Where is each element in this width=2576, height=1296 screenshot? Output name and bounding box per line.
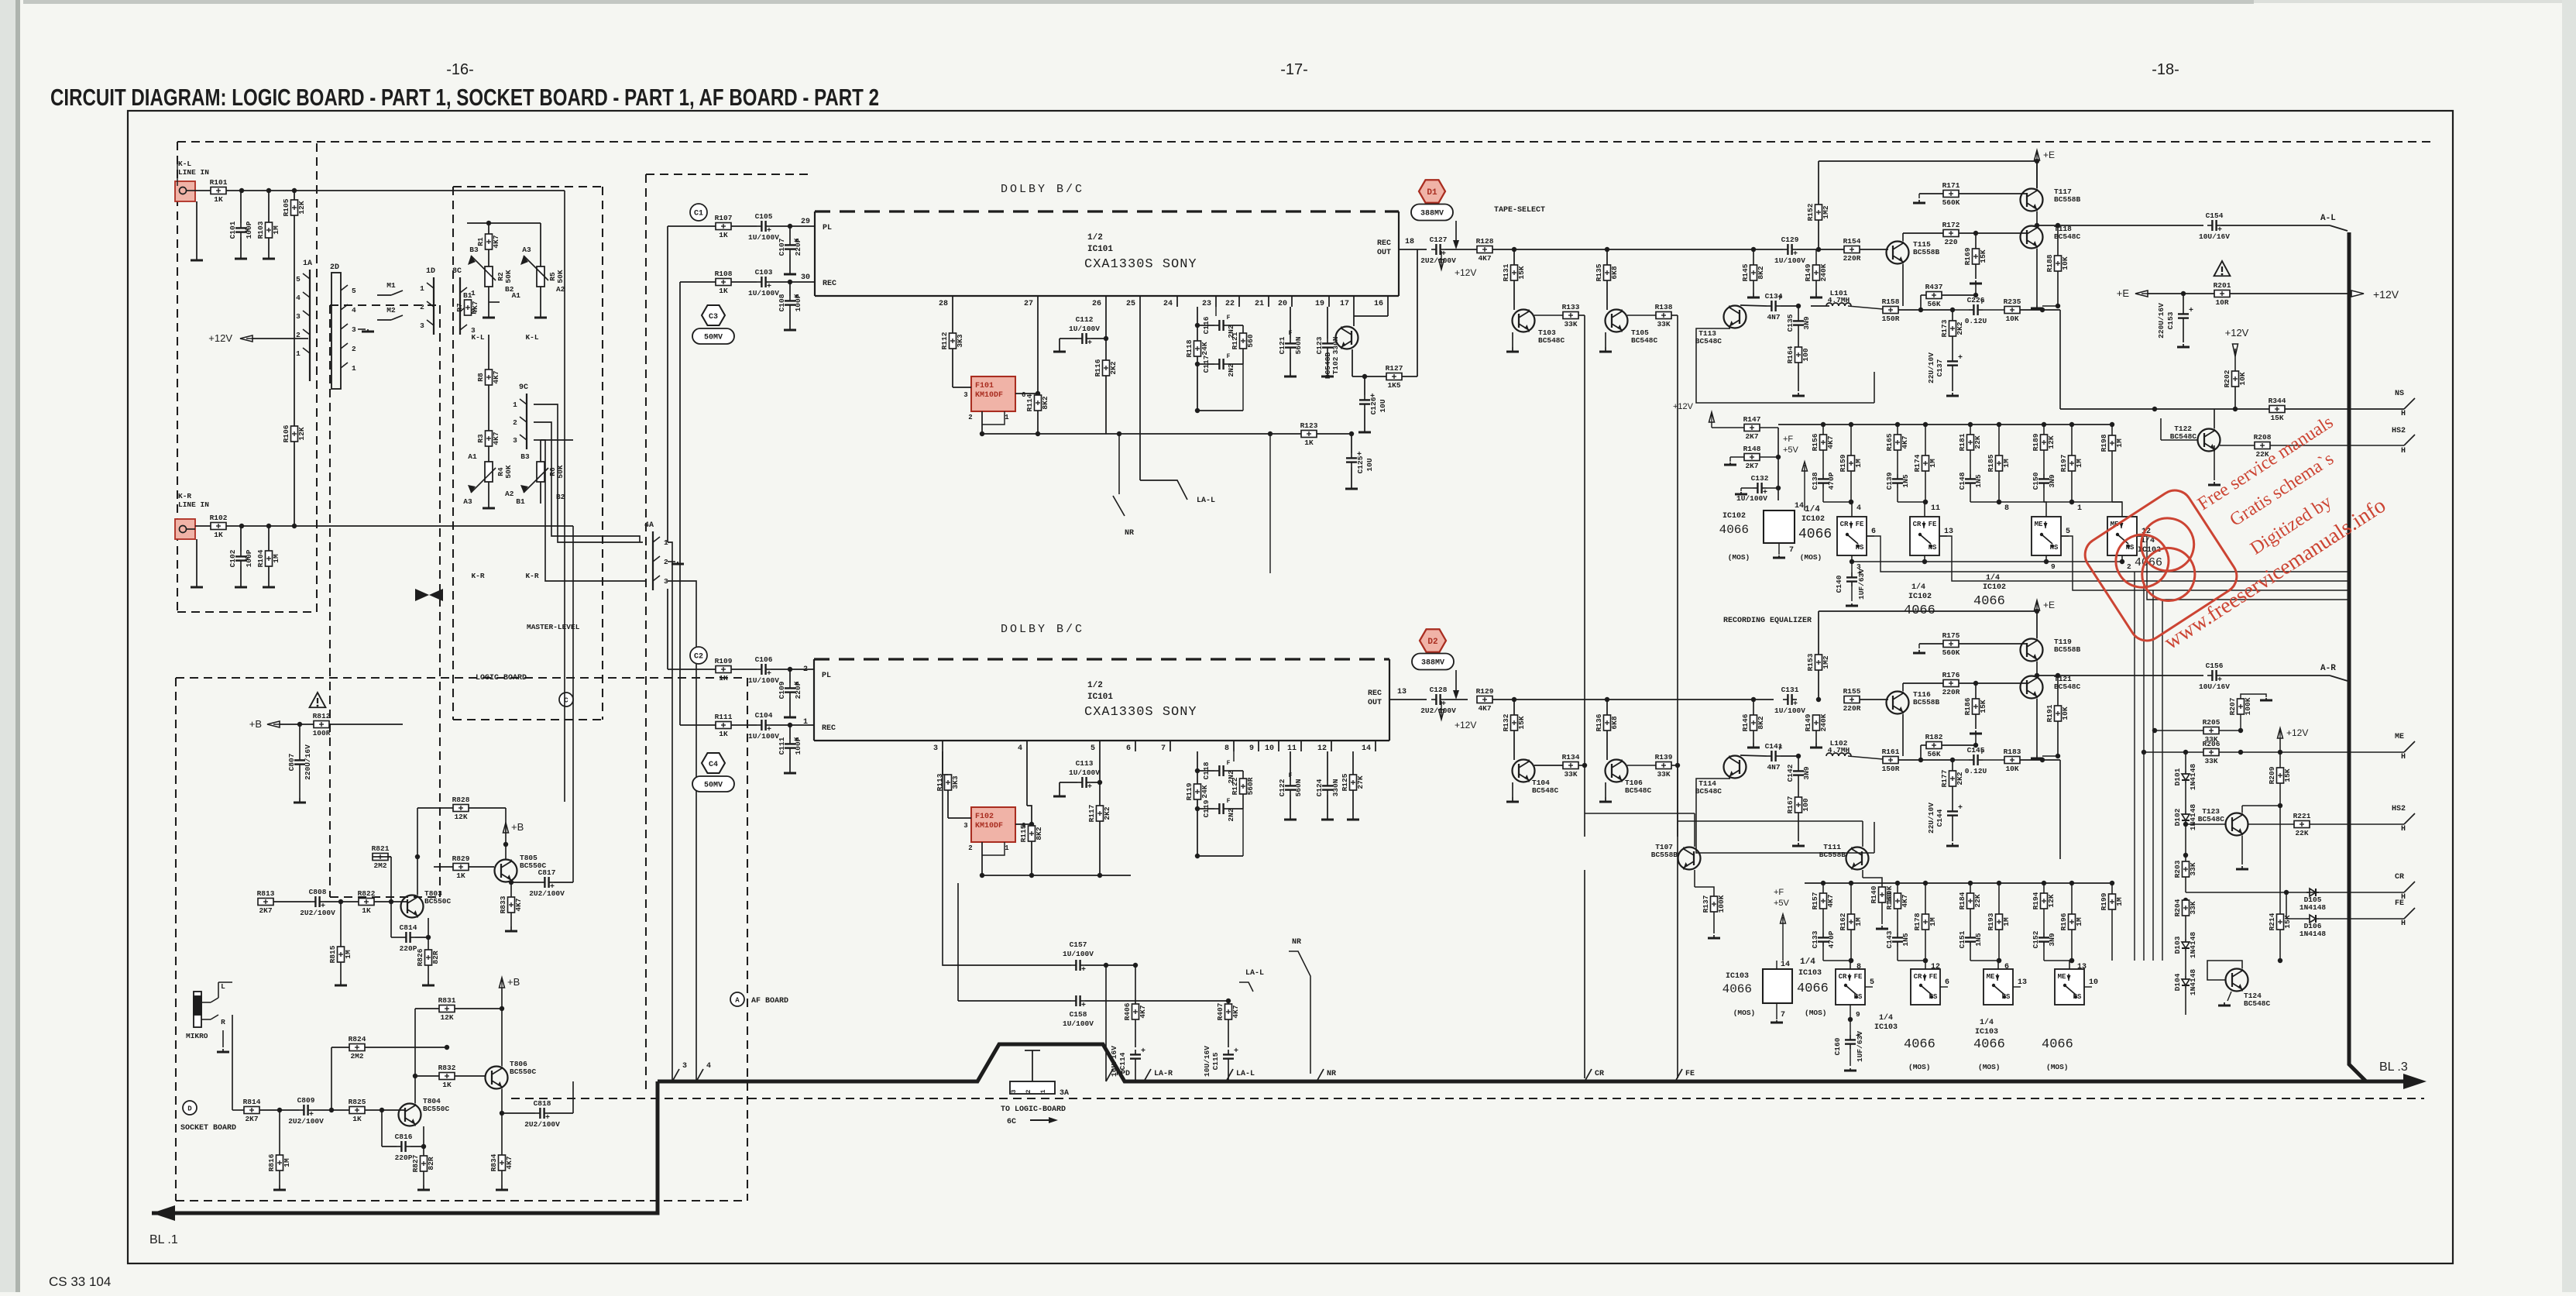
resistor R1 [486, 234, 493, 249]
svg-text:3K3: 3K3 [951, 775, 960, 789]
power +E flag lower [2035, 600, 2040, 610]
svg-text:0.12U: 0.12U [1965, 767, 1987, 775]
resistor R834 [501, 1089, 503, 1155]
svg-text:1M: 1M [1929, 459, 1937, 468]
svg-text:RECORDING EQUALIZER: RECORDING EQUALIZER [1723, 617, 1812, 625]
svg-text:15K: 15K [2283, 915, 2292, 928]
capacitor C144 [1952, 806, 1953, 811]
svg-text:C114: C114 [1118, 1052, 1127, 1070]
ground R827 [423, 1185, 424, 1190]
net RPD tick [1106, 1069, 1113, 1081]
svg-text:8K2: 8K2 [1041, 396, 1049, 409]
resistor R196 [2071, 883, 2073, 914]
svg-text:15K: 15K [1517, 266, 1526, 279]
svg-text:14: 14 [1362, 744, 1371, 753]
svg-text:BC548C: BC548C [2198, 815, 2225, 823]
svg-text:BL .3: BL .3 [2379, 1061, 2408, 1074]
svg-text:C140: C140 [1835, 575, 1843, 593]
resistor R155 [1844, 696, 1860, 703]
IC101a pin 24 [1176, 296, 1178, 307]
svg-text:H: H [2401, 920, 2406, 928]
svg-text:(MOS): (MOS) [1800, 553, 1822, 562]
svg-text:5: 5 [2066, 528, 2070, 536]
wire FE drop [1677, 765, 1678, 1078]
svg-text:1K: 1K [214, 195, 223, 204]
svg-text:1K: 1K [719, 674, 728, 682]
svg-text:R831: R831 [438, 996, 456, 1005]
svg-text:B3: B3 [469, 246, 479, 254]
wire jack K-R shield drop [196, 539, 197, 583]
svg-text:3: 3 [963, 822, 967, 830]
wire pin25 down (LA-L) [1139, 307, 1141, 480]
bowtie symbol [415, 589, 429, 601]
svg-text:1N4148: 1N4148 [2189, 932, 2197, 959]
resistor R105 [291, 200, 298, 215]
svg-text:BC550C: BC550C [424, 897, 452, 906]
svg-text:14: 14 [1795, 502, 1804, 510]
svg-text:R112: R112 [940, 332, 949, 349]
potentiometer R4 50K [485, 462, 493, 482]
resistor R175 [1943, 641, 1959, 648]
ground 2D pin3 [358, 328, 366, 330]
wire T117 [2036, 161, 2038, 188]
resistor R146 [1750, 715, 1757, 731]
capacitor C138 [1822, 450, 1824, 474]
svg-text:C817: C817 [538, 868, 556, 877]
wire socket lower amp [232, 1109, 244, 1111]
power +E flag top [2035, 150, 2040, 160]
capacitor C128 [1431, 699, 1436, 700]
connector 2D pin 2 [341, 343, 348, 349]
svg-text:R132: R132 [1502, 713, 1510, 731]
ground T124 [2236, 992, 2238, 1004]
svg-text:C139: C139 [1885, 472, 1894, 490]
transistor T124 [2226, 969, 2248, 992]
transistor T113 [1724, 306, 1747, 328]
svg-text:(MOS): (MOS) [1908, 1063, 1931, 1071]
svg-text:R169: R169 [1963, 247, 1972, 265]
resistor R199 [2111, 883, 2113, 894]
+12V flag outputs [2278, 728, 2283, 738]
capacitor C101 [240, 191, 242, 223]
resistor R822 [359, 899, 374, 906]
svg-text:R821: R821 [372, 844, 390, 853]
svg-text:220R: 220R [1843, 704, 1861, 713]
svg-text:R139: R139 [1655, 753, 1673, 761]
svg-text:R154: R154 [1843, 237, 1861, 246]
resistor R153 [1818, 670, 1819, 700]
microphone jack MIKRO [194, 992, 201, 1027]
svg-text:BC548C: BC548C [1695, 337, 1722, 345]
wire eq bundle verticals [2134, 572, 2135, 961]
eq upper top rail [1778, 424, 2112, 425]
svg-text:F: F [1779, 295, 1783, 302]
resistor R171 [1943, 191, 1959, 198]
svg-text:R123: R123 [1300, 421, 1318, 430]
svg-text:K: K [245, 556, 252, 560]
resistor R101 [211, 187, 226, 194]
capacitor C809 [299, 1109, 304, 1111]
svg-text:ME: ME [2058, 973, 2066, 981]
diode D104 [2185, 976, 2186, 979]
ground R186 [1975, 731, 1977, 734]
capacitor C113 [1077, 782, 1082, 783]
resistor R139 [1656, 762, 1671, 769]
svg-text:560K: 560K [1942, 198, 1960, 207]
+E arrow feed [2135, 290, 2148, 297]
svg-text:8: 8 [1224, 744, 1229, 753]
ground jack K-R [196, 583, 197, 587]
svg-text:R155: R155 [1843, 687, 1861, 696]
svg-text:C160: C160 [1833, 1037, 1842, 1055]
IC101a pin 19 [1328, 296, 1330, 307]
capacitor C125 [1351, 434, 1352, 453]
svg-text:CIRCUIT DIAGRAM: LOGIC BOARD -: CIRCUIT DIAGRAM: LOGIC BOARD - PART 1, S… [50, 84, 879, 111]
svg-text:A: A [735, 997, 740, 1005]
svg-text:1U/100V: 1U/100V [748, 732, 779, 741]
svg-text:R119: R119 [1185, 782, 1194, 800]
svg-text:H: H [2401, 447, 2406, 455]
svg-text:150R: 150R [1882, 315, 1900, 323]
connector 1A pin 4 [303, 292, 310, 297]
svg-text:100: 100 [1801, 348, 1810, 361]
svg-text:ME: ME [2035, 521, 2043, 528]
svg-text:2: 2 [420, 303, 424, 311]
svg-text:56K: 56K [1927, 300, 1940, 308]
capacitor C158 [1071, 1000, 1076, 1002]
ground R4 [488, 504, 489, 508]
svg-text:R204: R204 [2173, 899, 2182, 916]
wire 9C to 4A bundle [534, 404, 643, 542]
svg-text:R153: R153 [1806, 653, 1815, 671]
resistor R813 [258, 899, 273, 906]
svg-text:R202: R202 [2223, 370, 2231, 387]
svg-text:220P: 220P [400, 944, 417, 953]
wire R437 junction [1975, 284, 1977, 295]
svg-text:56K: 56K [1927, 750, 1940, 758]
analog switch IC103 ME/NS at pin 13 [2069, 961, 2072, 969]
svg-text:1M: 1M [283, 1158, 291, 1167]
svg-text:F: F [1227, 760, 1231, 767]
svg-text:2U2/100V: 2U2/100V [529, 889, 565, 898]
marker D1 388MV pill [1411, 205, 1453, 221]
transistor T104 [1513, 760, 1535, 782]
svg-text:ME: ME [1987, 973, 1995, 981]
svg-text:1N4148: 1N4148 [2300, 903, 2327, 912]
net CR label [2186, 892, 2404, 893]
svg-text:R145: R145 [1741, 263, 1750, 281]
capacitor C150 [2043, 450, 2045, 474]
svg-text:R814: R814 [243, 1098, 261, 1106]
+12V arrow feed right [2351, 290, 2364, 297]
wire F101 bottom pins [981, 411, 983, 434]
svg-text:F: F [1289, 330, 1293, 337]
resistor R201 [2214, 290, 2230, 297]
svg-text:7: 7 [1781, 1011, 1785, 1019]
svg-text:R165: R165 [1885, 433, 1894, 451]
svg-text:K-R: K-R [525, 572, 538, 580]
svg-text:HS: HS [2002, 993, 2011, 1001]
svg-text:R1: R1 [476, 237, 485, 246]
ground R150 [1815, 743, 1817, 748]
ground C111 [789, 768, 791, 773]
IC101a pin 28 [952, 296, 953, 307]
svg-text:C144: C144 [1935, 809, 1944, 827]
svg-text:R176: R176 [1942, 671, 1960, 679]
wire 4A to AF drop [668, 542, 672, 1081]
+12V feed arrow [240, 335, 252, 342]
svg-text:D104: D104 [2173, 973, 2182, 991]
svg-text:+5V: +5V [1783, 445, 1799, 455]
ground R175 [1918, 650, 1920, 653]
analog switch IC102 CR/HS at pin 4 [1851, 502, 1852, 517]
svg-text:IC102: IC102 [1983, 583, 2006, 592]
resistor R183 [2004, 757, 2020, 764]
svg-text:R147: R147 [1743, 415, 1761, 424]
svg-text:2K7: 2K7 [245, 1115, 258, 1123]
svg-text:NS: NS [1929, 993, 1938, 1001]
ground T122 [2214, 452, 2215, 480]
svg-text:R128: R128 [1476, 237, 1494, 246]
svg-text:6K8: 6K8 [1610, 716, 1619, 729]
ground R833 [510, 926, 512, 931]
svg-text:IC102: IC102 [1908, 593, 1932, 601]
svg-text:ME: ME [2395, 733, 2404, 741]
svg-text:BC558B: BC558B [1913, 248, 1940, 256]
IC101b pin 5 [1099, 741, 1101, 751]
svg-text:+F: +F [1774, 888, 1784, 897]
filter F101 KM10DF [971, 376, 1015, 411]
svg-text:C127: C127 [1430, 235, 1448, 244]
board outline dashed top rail [177, 141, 2432, 143]
IC101a pin 20 [1291, 296, 1293, 307]
wire T115 collector down [1902, 264, 1904, 306]
capacitor C103 [757, 281, 761, 283]
svg-text:18: 18 [1405, 238, 1414, 246]
marker D2 hexagon [1420, 629, 1446, 651]
svg-text:1K: 1K [719, 730, 728, 738]
svg-text:+12V: +12V [1455, 267, 1476, 278]
resistor R816 [279, 1110, 280, 1155]
socket board dashed box [176, 677, 747, 679]
svg-text:28: 28 [939, 300, 948, 308]
svg-text:C109: C109 [778, 681, 786, 699]
svg-text:4: 4 [1018, 744, 1022, 753]
svg-text:2K7: 2K7 [1745, 462, 1758, 470]
svg-text:2: 2 [968, 844, 972, 852]
svg-text:220R: 220R [1942, 688, 1960, 696]
connector 8C pin 2 [460, 306, 467, 311]
svg-text:1U/100V: 1U/100V [1774, 706, 1805, 715]
svg-text:15K: 15K [2283, 768, 2292, 782]
svg-text:4K7: 4K7 [1826, 435, 1835, 449]
svg-text:R116: R116 [1094, 359, 1102, 376]
resistor R157 [1822, 883, 1824, 893]
resistor R825 [349, 1107, 365, 1114]
svg-text:R3: R3 [476, 434, 485, 443]
svg-text:2U2/100V: 2U2/100V [288, 1117, 324, 1126]
analog switch IC102 ME/NS at pin 1 [2072, 502, 2122, 517]
svg-text:R125: R125 [1341, 773, 1349, 791]
svg-text:-16-: -16- [446, 61, 474, 78]
svg-text:R157: R157 [1811, 892, 1819, 909]
svg-text:2U2/100V: 2U2/100V [1420, 706, 1456, 715]
net 3 tick [672, 1069, 679, 1081]
svg-text:7: 7 [1161, 744, 1166, 753]
wire eq bundle horizontals [1867, 536, 2349, 572]
svg-text:2U2/100V: 2U2/100V [300, 909, 335, 917]
svg-text:R149: R149 [1804, 263, 1812, 281]
svg-text:1N4148: 1N4148 [2300, 930, 2327, 938]
svg-text:B1: B1 [463, 291, 472, 300]
transistor T103 [1513, 310, 1535, 332]
svg-text:NR: NR [1327, 1070, 1336, 1078]
svg-text:8K2: 8K2 [1035, 827, 1043, 840]
svg-text:C151: C151 [1958, 930, 1966, 948]
svg-text:LA-L: LA-L [1245, 969, 1264, 978]
svg-text:560N: 560N [1294, 779, 1303, 796]
capacitor C133 [1822, 909, 1824, 933]
svg-text:29: 29 [801, 218, 810, 226]
svg-text:R111: R111 [715, 713, 733, 721]
svg-text:7: 7 [1789, 546, 1794, 555]
svg-text:R146: R146 [1741, 713, 1750, 731]
svg-text:F: F [1981, 299, 1985, 306]
ground R164 [1798, 393, 1799, 396]
svg-text:R184: R184 [1958, 892, 1966, 909]
svg-text:CR: CR [1839, 973, 1847, 981]
warning triangle R201 [2214, 261, 2231, 276]
svg-text:C158: C158 [1070, 1010, 1087, 1019]
capacitor C807 [299, 724, 301, 755]
svg-text:8K2: 8K2 [1757, 266, 1765, 279]
ground T105 [1605, 347, 1606, 352]
svg-text:R114: R114 [1025, 394, 1034, 411]
net NR tick [1317, 1069, 1324, 1081]
svg-text:5: 5 [296, 275, 301, 284]
svg-text:NR: NR [1125, 529, 1134, 538]
transistor T119 [2021, 639, 2043, 662]
svg-text:1M: 1M [272, 554, 280, 563]
svg-text:1N4148: 1N4148 [2189, 764, 2197, 791]
resistor R814 [244, 1107, 259, 1114]
wire A-R output [2037, 675, 2203, 676]
svg-text:R163: R163 [1885, 892, 1894, 909]
connector 1D pin 3 [427, 320, 434, 325]
transistor T123 [2226, 813, 2248, 836]
svg-text:C808: C808 [309, 888, 327, 896]
resistor R167 [1795, 797, 1802, 813]
jack K-L LINE IN [175, 181, 195, 201]
wire D1 arrow down [1455, 221, 1457, 245]
svg-text:4N7: 4N7 [1767, 313, 1780, 321]
svg-text:TAPE-SELECT: TAPE-SELECT [1494, 206, 1545, 215]
svg-text:R183: R183 [2004, 748, 2021, 756]
wire CR drop [1584, 870, 1585, 1078]
resistor R131 [1513, 249, 1515, 265]
wire T113 base feedback [1696, 328, 1874, 403]
svg-text:1: 1 [2077, 504, 2082, 513]
node C3 hexagon [702, 305, 725, 325]
node C2 [690, 647, 707, 664]
op-amp IC101 upper half box [815, 210, 1399, 212]
svg-text:BC548C: BC548C [1625, 786, 1652, 795]
svg-text:12K: 12K [440, 1013, 453, 1022]
svg-text:C123: C123 [1315, 336, 1324, 354]
svg-text:1U/100V: 1U/100V [1069, 325, 1100, 333]
resistor R119 [1197, 751, 1198, 784]
svg-text:K: K [794, 294, 801, 297]
ground C108 [789, 325, 791, 330]
IC101a pin 26 [1105, 296, 1107, 307]
svg-text:33K: 33K [1657, 320, 1670, 328]
resistor R135 [1606, 249, 1608, 265]
transistor T114 [1724, 756, 1747, 779]
svg-text:3N9: 3N9 [1802, 316, 1811, 329]
svg-text:1N5: 1N5 [1901, 474, 1910, 487]
filter F102 KM10DF [971, 807, 1015, 842]
svg-text:HS: HS [1856, 544, 1864, 552]
svg-text:K-R: K-R [178, 492, 191, 500]
svg-text:R164: R164 [1786, 345, 1795, 363]
svg-text:10U/16V: 10U/16V [2199, 232, 2230, 241]
resistor R827 [423, 1146, 424, 1156]
ground C113 [1059, 792, 1060, 796]
svg-text:BC558B: BC558B [1913, 698, 1940, 706]
svg-text:1/4: 1/4 [1911, 583, 1925, 592]
svg-text:R832: R832 [438, 1064, 456, 1072]
svg-text:BC548C: BC548C [1631, 336, 1658, 345]
svg-text:R185: R185 [1987, 454, 1995, 472]
resistor R176 [1943, 680, 1959, 687]
ground R816 [279, 1185, 280, 1190]
svg-text:IC101: IC101 [1087, 245, 1113, 254]
svg-text:FE: FE [1685, 1070, 1695, 1078]
svg-text:10: 10 [2089, 978, 2098, 987]
svg-text:30: 30 [801, 273, 810, 282]
svg-text:R178: R178 [1913, 913, 1922, 930]
wire pot top rail [489, 222, 541, 224]
svg-text:R191: R191 [2045, 704, 2054, 722]
svg-text:22U/10V: 22U/10V [1927, 803, 1935, 834]
svg-text:3: 3 [682, 1062, 687, 1071]
svg-text:12K: 12K [2047, 894, 2056, 907]
capacitor C114 [1135, 1050, 1136, 1054]
svg-text:F: F [1227, 798, 1231, 805]
svg-text:R827: R827 [411, 1154, 420, 1172]
svg-text:R115: R115 [1019, 824, 1028, 842]
svg-text:C131: C131 [1781, 686, 1799, 694]
capacitor C153 [2183, 294, 2184, 309]
svg-text:R102: R102 [210, 514, 228, 522]
ground C124 [1327, 815, 1328, 820]
svg-text:C137: C137 [1935, 359, 1944, 376]
svg-text:220R: 220R [1843, 254, 1861, 263]
resistor R203 [2185, 846, 2186, 855]
svg-text:-17-: -17- [1280, 61, 1308, 78]
resistor R185 [1998, 425, 2000, 455]
svg-text:560K: 560K [1942, 648, 1960, 657]
svg-text:22: 22 [1225, 300, 1235, 308]
svg-text:R137: R137 [1702, 895, 1710, 913]
svg-text:4K7: 4K7 [471, 301, 479, 314]
transistor T105 [1606, 310, 1628, 332]
svg-text:+: + [1087, 339, 1092, 348]
capacitor C121 [1290, 307, 1291, 339]
wire socket upper amp [273, 901, 311, 902]
wire long vertical from R101 node to socket board [294, 190, 565, 191]
svg-text:33K: 33K [2204, 757, 2217, 765]
